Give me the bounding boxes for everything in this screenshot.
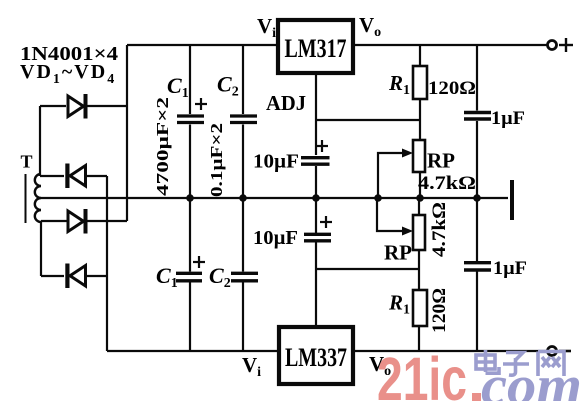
wire 1uF lower to bottom rail <box>476 272 478 352</box>
svg-text:LM317: LM317 <box>285 34 347 63</box>
diode VD1 <box>68 94 88 119</box>
svg-text:120Ω: 120Ω <box>428 78 476 99</box>
wire D4 anode to negative node <box>86 275 107 277</box>
wire C1 column lower <box>189 283 191 352</box>
capacitor C1 upper plates <box>177 116 204 123</box>
svg-text:1µF: 1µF <box>491 108 525 129</box>
svg-text:ADJ: ADJ <box>266 91 306 115</box>
svg-text:LM337: LM337 <box>285 343 347 372</box>
svg-text:0.1µF×2: 0.1µF×2 <box>207 123 226 197</box>
ground symbol (0V bar) <box>510 180 514 220</box>
capacitor 10uF upper plates <box>301 158 330 165</box>
wire D4 row <box>41 275 64 277</box>
capacitor 1uF lower plates <box>464 263 491 270</box>
svg-text:C1: C1 <box>167 73 189 101</box>
capacitor C1 lower plates <box>176 273 202 281</box>
svg-text:VD1~VD4: VD1~VD4 <box>20 61 116 87</box>
svg-text:RP: RP <box>384 241 412 265</box>
svg-text:10µF: 10µF <box>253 151 299 173</box>
wire center tap rail (0V) <box>41 197 508 199</box>
wire secondary bottom end vertical to D4 <box>40 221 42 276</box>
diode VD3 <box>68 209 88 234</box>
polarity + of 10uF lower <box>320 216 332 228</box>
capacitor C2 upper plates <box>230 116 257 123</box>
wire D2 anode to negative node <box>86 175 107 177</box>
watermark 电 character <box>476 350 499 373</box>
svg-text:RP: RP <box>427 149 455 173</box>
wire 1uF column upper <box>476 45 478 111</box>
wire R1 bottom to bottom rail <box>418 326 420 351</box>
diode VD2 <box>65 164 85 189</box>
wire RP wiper (top) <box>378 153 404 198</box>
diode VD4 <box>65 264 85 289</box>
wire LM337 ADJ pin up <box>315 241 317 327</box>
svg-text:T: T <box>21 152 33 172</box>
svg-text:R1: R1 <box>388 71 410 98</box>
capacitor C2 lower plates <box>231 273 258 281</box>
svg-text:4.7kΩ: 4.7kΩ <box>429 202 450 257</box>
wire bottom rail right segment (Vo to - terminal) <box>353 350 548 352</box>
wire D2 row <box>40 175 64 177</box>
transformer T core <box>25 174 27 223</box>
wire bottom rail left segment <box>107 350 279 352</box>
svg-text:Vo: Vo <box>359 13 381 40</box>
watermark 子 character <box>503 353 529 376</box>
wire top rail right segment (Vo to + terminal) <box>353 44 548 46</box>
wire C1 column mid <box>189 125 191 272</box>
wire R1 to RP (top) <box>419 99 421 140</box>
plus sign at + terminal <box>559 38 573 52</box>
capacitor 10uF lower plates <box>304 234 331 241</box>
polarity + of C1 upper <box>195 98 207 110</box>
svg-text:R1: R1 <box>388 291 410 318</box>
wire ADJ branch to RP/R1 junction (bottom) <box>316 268 418 270</box>
wire C1 column upper <box>189 45 191 114</box>
wire R1 top column from rail <box>419 45 421 66</box>
watermark dot <box>472 393 481 401</box>
wire secondary top end vertical <box>39 106 41 176</box>
potentiometer RP bottom <box>413 215 425 250</box>
wire C2 column mid <box>242 125 244 272</box>
potentiometer RP top wiper arrowhead <box>402 149 413 158</box>
potentiometer RP top <box>413 140 425 172</box>
wire negative rectifier node vertical (D2/D4 anodes down to bottom rail) <box>106 176 108 351</box>
wire top rail left segment <box>127 44 278 46</box>
capacitor 1uF upper plates <box>464 113 491 120</box>
terminal + output <box>548 41 557 50</box>
svg-text:C1: C1 <box>156 263 178 291</box>
watermark 网 character <box>538 352 564 377</box>
resistor R1 top <box>413 66 427 99</box>
svg-text:120Ω: 120Ω <box>429 288 450 333</box>
svg-text:C2: C2 <box>217 72 239 100</box>
svg-text:10µF: 10µF <box>253 227 298 249</box>
potentiometer RP bottom wiper arrowhead <box>402 227 413 236</box>
wire D3 cathode to positive node <box>87 220 127 222</box>
node junction dots on center rail <box>186 194 481 202</box>
wire RP wiper (bottom) <box>377 198 404 231</box>
wire 1uF column lower <box>476 198 478 261</box>
wire ADJ 10uF to center rail <box>315 166 317 198</box>
polarity + of 10uF upper <box>316 140 328 152</box>
minus sign at - terminal <box>559 350 571 353</box>
op-amp U1 LM317 regulator box <box>278 20 353 73</box>
wire RP bottom to center rail (top half) <box>419 172 421 198</box>
svg-text:4700µF×2: 4700µF×2 <box>153 97 172 196</box>
svg-text:Vi: Vi <box>257 14 276 41</box>
wire RP2 top from center rail <box>418 198 420 215</box>
wire ADJ 10uF (bottom) to center rail <box>315 198 317 233</box>
wire D1 cathode to node <box>87 105 127 107</box>
wire LM317 ADJ pin down <box>315 73 317 155</box>
wire C2 column lower <box>242 283 244 352</box>
polarity + of C1 lower <box>193 256 205 268</box>
wire D3 row from secondary bottom <box>41 220 67 222</box>
transformer T secondary winding <box>35 174 41 222</box>
svg-text:Vi: Vi <box>242 353 261 380</box>
wire C2 column upper <box>242 45 244 114</box>
wire positive rectifier node vertical (D1/D3 cathodes to top rail) <box>126 45 128 221</box>
svg-text:21ic: 21ic <box>377 345 467 401</box>
resistor R1 bottom <box>413 290 427 326</box>
wire 1uF upper to center rail <box>476 121 478 198</box>
op-amp U2 LM337 regulator box <box>279 327 353 384</box>
svg-text:C2: C2 <box>209 263 231 291</box>
svg-text:1µF: 1µF <box>493 258 527 279</box>
wire RP2 to R1 (bottom) <box>418 250 420 290</box>
wire D1 anode row <box>40 105 66 107</box>
terminal - output <box>548 347 557 356</box>
wire ADJ branch to R1/RP junction (top) <box>316 119 420 121</box>
svg-text:4.7kΩ: 4.7kΩ <box>418 173 476 194</box>
